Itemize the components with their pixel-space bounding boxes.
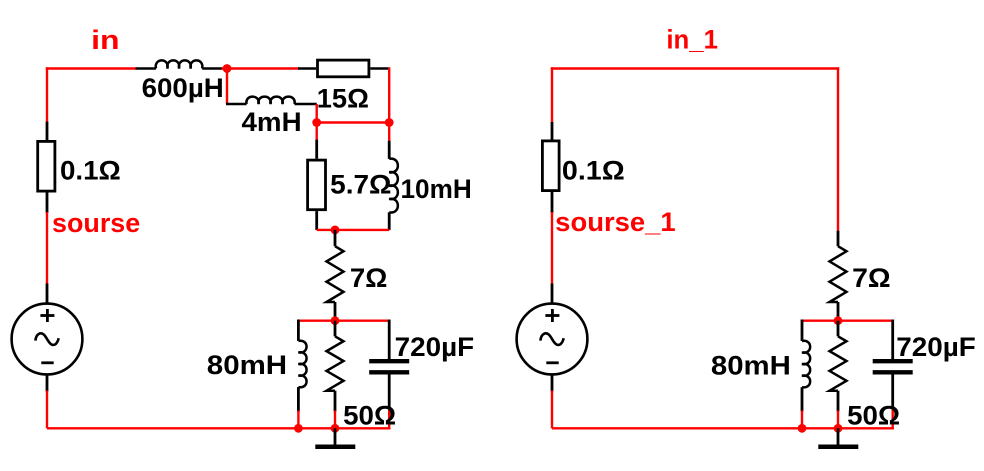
svg-text:50Ω: 50Ω	[343, 401, 396, 431]
svg-text:10mH: 10mH	[401, 174, 472, 204]
svg-text:in: in	[91, 25, 119, 55]
svg-text:7Ω: 7Ω	[350, 263, 388, 293]
svg-text:4mH: 4mH	[242, 107, 302, 137]
svg-text:15Ω: 15Ω	[317, 84, 369, 114]
svg-text:0.1Ω: 0.1Ω	[60, 156, 121, 186]
svg-text:80mH: 80mH	[207, 350, 287, 380]
svg-text:5.7Ω: 5.7Ω	[330, 170, 391, 200]
svg-text:80mH: 80mH	[711, 351, 791, 381]
svg-text:7Ω: 7Ω	[852, 263, 891, 293]
svg-text:sourse_1: sourse_1	[555, 207, 676, 237]
svg-text:sourse: sourse	[52, 208, 140, 238]
svg-text:50Ω: 50Ω	[847, 401, 900, 431]
svg-text:720µF: 720µF	[896, 332, 976, 362]
svg-text:720µF: 720µF	[395, 332, 475, 362]
svg-text:0.1Ω: 0.1Ω	[562, 156, 625, 186]
svg-text:in_1: in_1	[666, 24, 718, 54]
svg-text:600µH: 600µH	[142, 73, 224, 103]
